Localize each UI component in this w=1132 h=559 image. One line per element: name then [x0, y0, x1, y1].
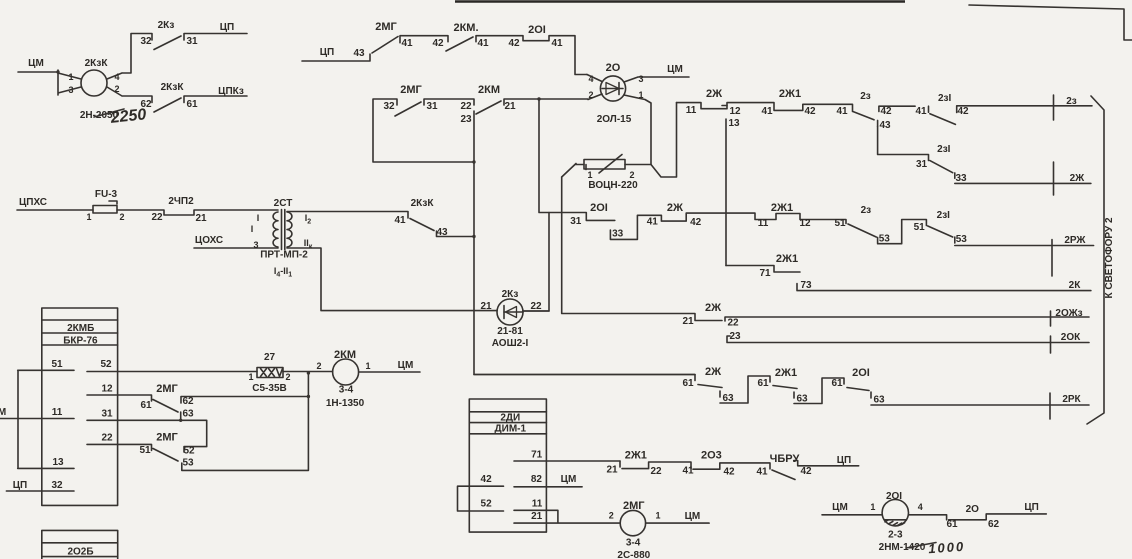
svg-text:2зI: 2зI: [937, 144, 951, 155]
svg-text:ЦП: ЦП: [1024, 502, 1039, 513]
svg-text:51: 51: [914, 222, 926, 233]
svg-text:I2: I2: [305, 213, 312, 226]
svg-text:21-81: 21-81: [497, 326, 523, 337]
svg-text:42: 42: [880, 106, 892, 117]
svg-text:2Ж1: 2Ж1: [776, 253, 798, 265]
svg-text:ВОЦН-220: ВОЦН-220: [588, 180, 638, 191]
svg-text:51: 51: [139, 445, 151, 456]
svg-text:12: 12: [729, 106, 741, 117]
svg-text:22: 22: [460, 101, 472, 112]
svg-text:АОШ2-I: АОШ2-I: [492, 338, 529, 349]
svg-text:3: 3: [68, 85, 73, 95]
svg-text:ЦМ: ЦМ: [667, 64, 683, 75]
svg-text:31: 31: [186, 36, 198, 47]
svg-text:3-4: 3-4: [339, 385, 354, 396]
svg-text:2КзК: 2КзК: [411, 198, 435, 209]
svg-text:2КзК: 2КзК: [161, 82, 185, 93]
svg-text:61: 61: [757, 378, 769, 389]
svg-text:С5-35В: С5-35В: [252, 383, 286, 394]
svg-text:61: 61: [946, 519, 958, 530]
svg-text:2КзК: 2КзК: [85, 58, 109, 69]
svg-text:43: 43: [879, 120, 891, 131]
svg-text:2МГ: 2МГ: [375, 21, 397, 33]
svg-text:22: 22: [650, 466, 662, 477]
svg-text:13: 13: [728, 118, 740, 129]
svg-text:12: 12: [799, 218, 811, 229]
svg-text:2-3: 2-3: [888, 530, 903, 541]
svg-text:М: М: [0, 407, 6, 418]
svg-text:2ОI: 2ОI: [886, 491, 902, 502]
svg-text:1: 1: [638, 90, 643, 100]
svg-text:2С-880: 2С-880: [617, 550, 650, 559]
svg-text:1Н-1350: 1Н-1350: [326, 398, 365, 409]
svg-text:31: 31: [426, 101, 438, 112]
svg-text:ЦМ: ЦМ: [28, 58, 44, 69]
svg-text:71: 71: [531, 450, 543, 461]
svg-text:1: 1: [86, 212, 91, 222]
svg-text:2: 2: [285, 372, 290, 382]
svg-text:42: 42: [690, 217, 702, 228]
svg-text:21: 21: [531, 511, 543, 522]
svg-text:2зI: 2зI: [938, 93, 952, 104]
svg-text:2Кз: 2Кз: [502, 289, 519, 300]
svg-text:32: 32: [383, 101, 395, 112]
svg-text:2МГ: 2МГ: [623, 500, 645, 512]
svg-text:І: І: [257, 213, 260, 223]
svg-text:41: 41: [756, 467, 768, 478]
svg-text:27: 27: [264, 352, 276, 363]
svg-text:2ОК: 2ОК: [1061, 332, 1081, 343]
svg-text:FU-3: FU-3: [95, 189, 118, 200]
svg-text:2: 2: [609, 511, 614, 521]
svg-text:51: 51: [834, 218, 846, 229]
svg-text:62: 62: [988, 519, 1000, 530]
svg-text:2ЧП2: 2ЧП2: [168, 196, 194, 207]
svg-text:52: 52: [481, 499, 493, 510]
svg-text:52: 52: [183, 446, 195, 457]
svg-text:11: 11: [686, 105, 697, 116]
svg-text:21: 21: [504, 101, 516, 112]
svg-text:62: 62: [182, 396, 194, 407]
svg-text:61: 61: [140, 400, 152, 411]
svg-text:63: 63: [722, 393, 734, 404]
svg-text:71: 71: [759, 268, 771, 279]
svg-text:2Ж1: 2Ж1: [625, 450, 647, 462]
svg-text:11: 11: [532, 499, 543, 510]
svg-text:2ОI: 2ОI: [590, 202, 608, 214]
svg-text:2з: 2з: [861, 205, 872, 216]
svg-text:41: 41: [682, 466, 694, 477]
svg-text:23: 23: [460, 114, 472, 125]
svg-text:53: 53: [182, 458, 194, 469]
svg-text:22: 22: [101, 433, 113, 444]
svg-text:4: 4: [114, 72, 119, 82]
svg-text:21: 21: [480, 301, 492, 312]
svg-text:ЦМ: ЦМ: [398, 360, 414, 371]
svg-text:51: 51: [51, 359, 63, 370]
svg-text:2Ж: 2Ж: [667, 202, 683, 214]
svg-text:52: 52: [100, 359, 112, 370]
svg-text:2Ж1: 2Ж1: [771, 202, 793, 214]
svg-text:42: 42: [481, 474, 493, 485]
svg-text:2РК: 2РК: [1062, 394, 1081, 405]
svg-text:22: 22: [151, 212, 163, 223]
svg-text:2Ж: 2Ж: [706, 88, 722, 100]
svg-text:21: 21: [682, 316, 694, 327]
svg-text:2МГ: 2МГ: [156, 383, 178, 395]
svg-text:3: 3: [253, 240, 258, 250]
svg-text:63: 63: [182, 409, 194, 420]
svg-text:33: 33: [955, 173, 967, 184]
svg-text:4: 4: [918, 502, 923, 512]
svg-text:33: 33: [612, 229, 624, 240]
svg-text:41: 41: [551, 38, 563, 49]
svg-text:3-4: 3-4: [626, 538, 641, 549]
svg-text:2Ж: 2Ж: [705, 366, 721, 378]
svg-text:1: 1: [587, 170, 592, 180]
svg-text:2О3: 2О3: [701, 450, 722, 462]
svg-text:41: 41: [401, 38, 413, 49]
svg-text:ДИМ-1: ДИМ-1: [495, 424, 527, 435]
svg-text:53: 53: [879, 234, 891, 245]
svg-text:4: 4: [588, 74, 593, 84]
svg-text:2ДИ: 2ДИ: [500, 413, 520, 424]
svg-text:ЧБРУ: ЧБРУ: [770, 453, 800, 465]
svg-text:61: 61: [831, 378, 843, 389]
svg-text:2: 2: [629, 170, 634, 180]
svg-text:ЦП: ЦП: [837, 455, 852, 466]
svg-text:2КМБ: 2КМБ: [67, 323, 94, 334]
svg-text:1: 1: [655, 511, 660, 521]
svg-text:2ОI: 2ОI: [852, 367, 870, 379]
svg-text:82: 82: [531, 474, 543, 485]
svg-text:1: 1: [68, 72, 73, 82]
svg-text:2МГ: 2МГ: [400, 84, 422, 96]
svg-text:2НМ-1420: 2НМ-1420: [879, 542, 926, 553]
svg-text:2О: 2О: [606, 62, 621, 74]
svg-text:21: 21: [606, 465, 618, 476]
svg-text:ЦОХС: ЦОХС: [195, 235, 223, 246]
svg-text:ЦМ: ЦМ: [832, 502, 848, 513]
svg-text:41: 41: [915, 106, 927, 117]
svg-text:ЦПХС: ЦПХС: [19, 197, 47, 208]
svg-text:53: 53: [956, 234, 968, 245]
svg-text:42: 42: [804, 106, 816, 117]
svg-text:63: 63: [873, 395, 885, 406]
svg-text:11: 11: [52, 407, 63, 418]
svg-text:2з: 2з: [860, 91, 871, 102]
svg-text:42: 42: [957, 106, 969, 117]
svg-text:2РЖ: 2РЖ: [1064, 235, 1086, 246]
svg-text:41: 41: [477, 38, 489, 49]
svg-text:43: 43: [353, 48, 365, 59]
svg-text:ЦП: ЦП: [220, 22, 235, 33]
svg-text:32: 32: [140, 36, 152, 47]
svg-text:63: 63: [796, 394, 808, 405]
svg-text:2Ж: 2Ж: [705, 302, 721, 314]
svg-text:2СТ: 2СТ: [274, 198, 293, 209]
svg-text:41: 41: [836, 106, 848, 117]
svg-text:12: 12: [101, 384, 113, 395]
svg-text:ЦМ: ЦМ: [561, 474, 577, 485]
svg-text:ЦП: ЦП: [320, 47, 335, 58]
svg-text:2: 2: [114, 84, 119, 94]
svg-text:2МГ: 2МГ: [156, 432, 178, 444]
svg-text:1: 1: [365, 361, 370, 371]
svg-text:2О2Б: 2О2Б: [67, 547, 93, 558]
svg-text:31: 31: [101, 409, 113, 420]
svg-text:42: 42: [800, 466, 812, 477]
svg-text:К СВЕТОФОРУ 2: К СВЕТОФОРУ 2: [1104, 217, 1115, 298]
svg-text:31: 31: [570, 216, 582, 227]
svg-text:22: 22: [727, 318, 739, 329]
svg-text:2КМ.: 2КМ.: [453, 22, 478, 34]
svg-text:42: 42: [508, 38, 520, 49]
svg-text:2КМ: 2КМ: [334, 349, 356, 361]
svg-text:2Ж1: 2Ж1: [779, 88, 801, 100]
svg-text:2Ж: 2Ж: [1070, 173, 1086, 184]
svg-text:61: 61: [682, 378, 694, 389]
svg-text:43: 43: [436, 227, 448, 238]
svg-text:БКР-76: БКР-76: [63, 336, 98, 347]
svg-text:23: 23: [729, 331, 741, 342]
svg-text:41: 41: [647, 217, 659, 228]
svg-text:2КМ: 2КМ: [478, 84, 500, 96]
svg-text:I4-II1: I4-II1: [274, 266, 292, 279]
svg-text:42: 42: [432, 38, 444, 49]
svg-text:2Кз: 2Кз: [158, 20, 175, 31]
svg-text:42: 42: [723, 467, 735, 478]
svg-text:11: 11: [758, 218, 769, 229]
svg-text:2ОI: 2ОI: [528, 24, 546, 36]
svg-text:ЦМ: ЦМ: [685, 511, 701, 522]
svg-text:2К: 2К: [1069, 280, 1082, 291]
svg-text:ПРТ-МП-2: ПРТ-МП-2: [260, 250, 308, 261]
svg-text:1: 1: [870, 502, 875, 512]
svg-text:31: 31: [916, 159, 928, 170]
svg-text:22: 22: [530, 301, 542, 312]
svg-text:2250: 2250: [109, 106, 147, 127]
svg-text:1: 1: [248, 372, 253, 382]
svg-text:1000: 1000: [928, 539, 966, 557]
svg-text:ЦПКз: ЦПКз: [218, 86, 244, 97]
svg-text:2О: 2О: [966, 504, 980, 515]
svg-text:2: 2: [588, 90, 593, 100]
svg-text:2ОЛ-15: 2ОЛ-15: [597, 114, 632, 125]
svg-text:61: 61: [186, 99, 198, 110]
svg-text:41: 41: [761, 106, 773, 117]
svg-text:73: 73: [800, 280, 812, 291]
svg-text:2Ж1: 2Ж1: [775, 367, 797, 379]
svg-text:2: 2: [316, 361, 321, 371]
svg-text:3: 3: [638, 74, 643, 84]
svg-text:21: 21: [195, 213, 207, 224]
svg-text:32: 32: [51, 480, 63, 491]
svg-text:41: 41: [394, 215, 406, 226]
svg-text:ЦП: ЦП: [13, 480, 28, 491]
svg-text:2зI: 2зI: [937, 210, 951, 221]
svg-text:13: 13: [52, 457, 64, 468]
svg-text:І: І: [251, 224, 254, 234]
svg-text:2: 2: [119, 212, 124, 222]
